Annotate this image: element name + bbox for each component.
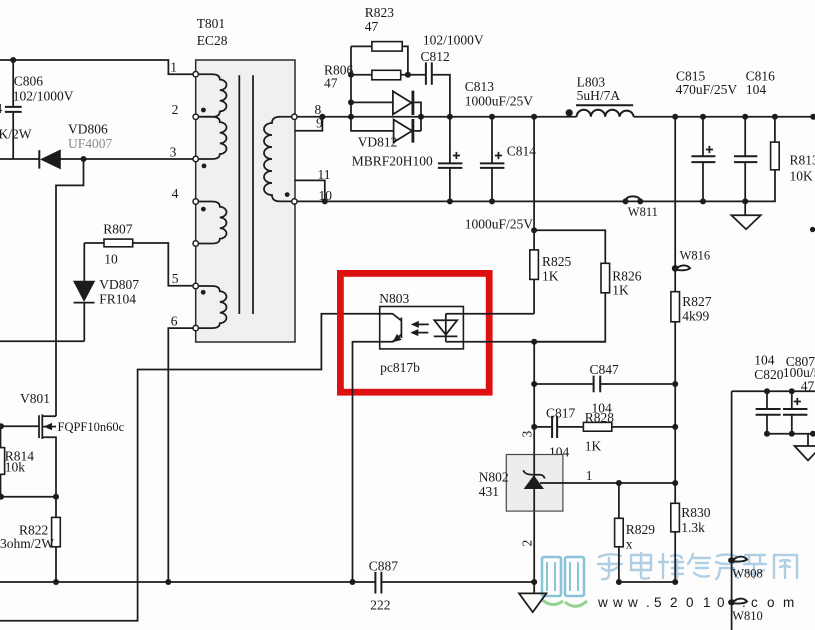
svg-text:w: w xyxy=(597,595,608,610)
svg-text:c: c xyxy=(751,595,758,610)
capacitor C817 xyxy=(534,426,583,428)
red highlight box xyxy=(340,273,489,392)
svg-text:1K: 1K xyxy=(585,438,602,453)
svg-text:N803: N803 xyxy=(379,291,409,306)
feedback divider column xyxy=(533,342,535,582)
resistor R825 xyxy=(530,250,539,280)
capacitor C806 xyxy=(12,60,14,159)
svg-text:o: o xyxy=(767,595,775,610)
watermark book pages green xyxy=(541,599,587,606)
shunt regulator N802 (431) xyxy=(506,455,563,512)
wire feedback to controller (opto collector) xyxy=(0,314,394,621)
diode VD807 xyxy=(83,243,85,341)
svg-text:1: 1 xyxy=(586,468,593,483)
ground (N802) xyxy=(533,582,535,593)
svg-text:R823: R823 xyxy=(365,5,395,20)
polarity dot pin10 xyxy=(285,192,290,197)
svg-text:C812: C812 xyxy=(421,49,450,64)
resistor R814 xyxy=(0,426,2,496)
resistor R822 xyxy=(55,497,57,582)
node source xyxy=(53,494,59,500)
svg-text:m: m xyxy=(783,595,794,610)
wire R826 branch xyxy=(534,230,605,263)
svg-text:1: 1 xyxy=(170,60,177,75)
svg-text:FQPF10n60c: FQPF10n60c xyxy=(58,420,125,434)
primary bottom rail xyxy=(0,581,534,583)
svg-text:W811: W811 xyxy=(628,205,658,219)
svg-text:1.3k: 1.3k xyxy=(681,520,705,535)
svg-text:R829: R829 xyxy=(626,522,656,537)
secondary main rail xyxy=(294,116,815,118)
jumper W810 xyxy=(728,599,735,605)
svg-text:5uH/7A: 5uH/7A xyxy=(577,88,621,103)
polarity dot pin2 xyxy=(201,108,206,113)
resistor R829 xyxy=(618,483,620,582)
capacitor C847 xyxy=(534,383,675,385)
svg-text:2: 2 xyxy=(172,102,179,117)
svg-text:R807: R807 xyxy=(103,222,133,237)
wire clamp return xyxy=(0,340,84,342)
jumper W808 xyxy=(728,557,735,563)
resistor R806 xyxy=(351,74,408,76)
wire top feed to pin 1 xyxy=(0,60,196,74)
wire source sense xyxy=(0,496,56,498)
diode VD806 xyxy=(39,150,60,168)
svg-text:3: 3 xyxy=(520,431,535,438)
svg-text:47: 47 xyxy=(365,19,379,34)
wire aux output top xyxy=(732,390,815,392)
svg-text:R827: R827 xyxy=(682,294,712,309)
svg-text:3: 3 xyxy=(170,145,177,160)
svg-text:10k: 10k xyxy=(5,460,26,475)
svg-text:MBRF20H100: MBRF20H100 xyxy=(352,154,433,169)
resistor R807 xyxy=(84,243,195,286)
svg-text:V801: V801 xyxy=(20,391,50,406)
svg-text:3ohm/2W: 3ohm/2W xyxy=(0,536,54,551)
svg-text:10K: 10K xyxy=(790,169,814,184)
svg-text:11: 11 xyxy=(318,167,331,182)
main sense vertical W816/R827/R830 xyxy=(674,117,676,582)
capacitor C807 xyxy=(791,391,793,434)
svg-text:K/2W: K/2W xyxy=(0,127,32,142)
wire pin 8/9 xyxy=(294,117,322,131)
svg-text:4k99: 4k99 xyxy=(682,309,709,324)
ground (secondary) xyxy=(744,201,746,215)
diode VD812 (dual) xyxy=(351,102,394,130)
svg-text:FR104: FR104 xyxy=(99,292,136,307)
svg-text:C814: C814 xyxy=(507,144,537,159)
svg-text:W808: W808 xyxy=(732,567,763,581)
svg-text:0: 0 xyxy=(686,595,694,610)
resistor R828 xyxy=(583,422,611,431)
svg-text:1000uF/25V: 1000uF/25V xyxy=(465,94,534,109)
svg-text:222: 222 xyxy=(370,598,390,613)
svg-text:470uF/25V: 470uF/25V xyxy=(676,82,738,97)
resistor R826 xyxy=(601,263,610,293)
wire left to VD806 xyxy=(0,158,39,160)
jumper W816 xyxy=(672,265,679,272)
capacitor C812 xyxy=(408,75,450,117)
svg-text:5: 5 xyxy=(654,595,662,610)
svg-text:4: 4 xyxy=(0,101,3,116)
wire pin 11 xyxy=(294,180,324,201)
polarity dot pin3 xyxy=(202,164,207,169)
svg-text:5: 5 xyxy=(172,271,179,286)
svg-text:pc817b: pc817b xyxy=(380,360,420,375)
svg-text:VD806: VD806 xyxy=(68,122,108,137)
svg-text:1K: 1K xyxy=(542,269,559,284)
svg-text:N802: N802 xyxy=(479,470,509,485)
svg-text:C813: C813 xyxy=(465,79,495,94)
optocoupler N803 xyxy=(380,307,464,349)
svg-text:w: w xyxy=(627,595,638,610)
N803 phototransistor xyxy=(380,314,401,342)
wire pin6 to primary ground rail xyxy=(168,328,195,582)
capacitor C887 xyxy=(375,572,381,594)
transistor V801 (MOSFET) xyxy=(0,414,56,496)
capacitor C814 xyxy=(491,117,493,202)
svg-text:x: x xyxy=(626,536,633,551)
polarity dot pin4 xyxy=(201,207,206,212)
svg-text:47: 47 xyxy=(801,379,815,394)
svg-text:EC28: EC28 xyxy=(197,33,228,48)
winding P3 (pin 4 - aux) xyxy=(196,202,227,244)
ground (aux) xyxy=(807,434,809,446)
watermark chinese characters xyxy=(598,553,797,579)
svg-text:C887: C887 xyxy=(369,559,399,574)
wire LED cathode xyxy=(446,341,606,343)
svg-text:R830: R830 xyxy=(681,505,711,520)
node C806 top xyxy=(10,57,16,63)
capacitor C815 xyxy=(702,117,704,202)
resistor R813 xyxy=(774,117,776,142)
svg-text:VD812: VD812 xyxy=(358,135,398,150)
svg-text:UF4007: UF4007 xyxy=(68,136,113,151)
secondary lower rail xyxy=(294,170,775,202)
node right edge mid xyxy=(810,227,815,232)
svg-text:47: 47 xyxy=(324,76,338,91)
jumper W811 xyxy=(623,198,629,204)
wire N802 pin1 xyxy=(540,482,675,484)
svg-text:1: 1 xyxy=(703,595,711,610)
svg-text:C806: C806 xyxy=(14,74,44,89)
watermark url www.520101.com xyxy=(597,595,794,610)
resistor R830 xyxy=(671,503,680,532)
wire LED anode xyxy=(446,313,534,315)
watermark book icon xyxy=(542,557,584,596)
svg-text:C847: C847 xyxy=(590,362,620,377)
svg-text:R826: R826 xyxy=(612,269,642,284)
svg-text:104: 104 xyxy=(746,82,767,97)
svg-text:4: 4 xyxy=(172,186,179,201)
resistor R827 xyxy=(671,292,680,322)
transformer pins (circles) xyxy=(193,72,198,77)
wire drain feed (pin3 node down to MOSFET drain) xyxy=(56,159,84,416)
wire VD806 to pin 3 xyxy=(60,158,195,160)
svg-text:10: 10 xyxy=(104,252,118,267)
svg-text:W810: W810 xyxy=(732,609,763,623)
transformer T801 body xyxy=(196,60,295,342)
svg-text:C817: C817 xyxy=(546,406,576,421)
svg-text:102/1000V: 102/1000V xyxy=(13,89,74,104)
svg-text:0: 0 xyxy=(717,595,725,610)
winding P4 (pins 5-6) xyxy=(196,286,227,328)
svg-text:VD807: VD807 xyxy=(99,277,139,292)
capacitor C820 xyxy=(766,391,768,434)
svg-text:R825: R825 xyxy=(542,254,572,269)
capacitor C816 xyxy=(744,117,746,202)
resistor R823 xyxy=(351,46,408,116)
W808/W810 column xyxy=(731,391,733,630)
svg-text:.: . xyxy=(646,595,650,610)
svg-text:102/1000V: 102/1000V xyxy=(423,33,484,48)
svg-text:431: 431 xyxy=(479,484,499,499)
svg-text:6: 6 xyxy=(171,314,178,329)
svg-text:R813: R813 xyxy=(790,153,815,168)
inductor L803 xyxy=(577,110,634,117)
wire +V to R825/R826 xyxy=(533,117,535,250)
svg-text:104: 104 xyxy=(754,353,775,368)
winding secondary (pins 8/9 - 10) xyxy=(264,117,294,202)
node gate xyxy=(0,423,4,429)
svg-text:1K: 1K xyxy=(612,283,629,298)
N803 wire emitter out xyxy=(353,342,394,582)
svg-text:1000uF/25V: 1000uF/25V xyxy=(465,217,534,232)
svg-text:R828: R828 xyxy=(585,410,615,425)
svg-text:w: w xyxy=(612,595,623,610)
polarity dot pin5 xyxy=(201,290,206,295)
svg-text:T801: T801 xyxy=(197,16,226,31)
svg-text:2: 2 xyxy=(670,595,678,610)
core xyxy=(239,75,253,314)
capacitor C813 xyxy=(449,117,451,202)
wire aux bottom xyxy=(767,433,815,435)
svg-text:2: 2 xyxy=(520,540,535,547)
N803 light arrows xyxy=(418,323,429,325)
svg-text:W816: W816 xyxy=(680,249,711,263)
wire R829/R830 bottom xyxy=(619,581,675,583)
N803 LED xyxy=(445,314,447,342)
winding P2 (pins 2-3) xyxy=(196,117,227,159)
svg-text:C820: C820 xyxy=(754,367,784,382)
winding P1 (pins 1-2) xyxy=(196,74,227,117)
node VD806 cathode xyxy=(81,156,87,162)
